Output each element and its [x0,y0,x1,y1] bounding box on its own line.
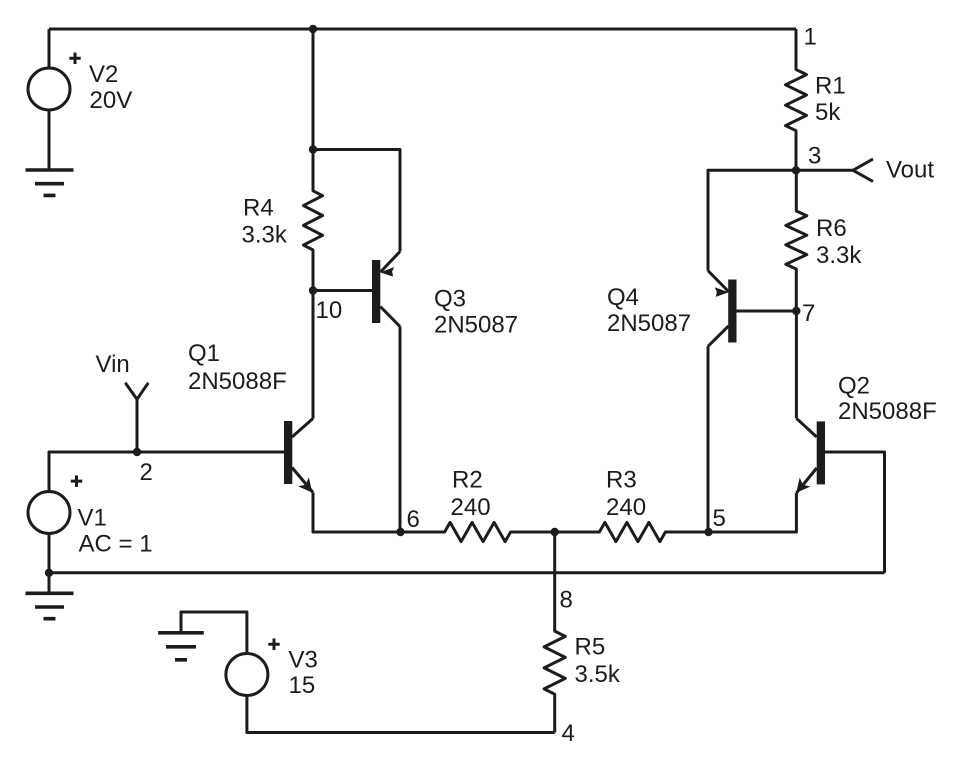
wire Q3 collector down to node 6 [399,327,402,533]
Q4 collector diagonal [708,326,729,346]
svg-text:2N5087: 2N5087 [434,312,518,339]
node 5 junction dot [704,528,712,536]
junction dot on top rail [309,25,317,33]
resistor R4 [303,150,322,291]
Q1 emitter diagonal [292,468,313,493]
wire node 2 to V1 positive lead [49,452,137,491]
Q1 emitter arrow (NPN, outward) [298,477,312,492]
transistor Q1 body bar [284,421,292,484]
svg-text:Vin: Vin [96,351,130,378]
junction dot V1 to ground rail [45,569,53,577]
Q4 emitter arrow (PNP, into bar) [715,287,729,297]
Q3 emitter diagonal [381,252,401,273]
wire node 5 to Q2 emitter [709,493,797,532]
transistor Q4 body bar [728,280,736,343]
source V3 [226,654,268,696]
source V2 [28,68,70,110]
Q2 collector diagonal [796,418,816,437]
svg-text:R5: R5 [575,634,606,661]
svg-text:Q3: Q3 [434,286,466,313]
svg-text:6: 6 [407,506,420,533]
wire node 4 to V3 negative lead [247,696,555,733]
wire V1 to ground symbol [48,573,51,594]
Q4 emitter diagonal [708,271,729,292]
svg-text:5: 5 [713,505,726,532]
svg-text:Q4: Q4 [607,284,639,311]
svg-text:3.5k: 3.5k [575,661,621,688]
svg-text:2N5088F: 2N5088F [838,398,937,425]
svg-text:R6: R6 [816,215,847,242]
wire middle vertical from top rail [312,29,315,150]
wire node 3 to Q4 emitter [708,170,796,270]
svg-text:240: 240 [451,494,491,521]
svg-text:1: 1 [804,24,817,51]
node 6 junction dot [396,528,404,536]
plus sign V3 [268,639,279,651]
svg-text:3.3k: 3.3k [816,242,862,269]
wire Vin stem [136,399,139,452]
resistor R2 [401,522,555,541]
wire Q1 base to node 2 [137,451,284,454]
node 10 junction dot [309,286,317,294]
svg-text:4: 4 [562,720,575,747]
svg-text:2N5088F: 2N5088F [188,368,287,395]
wire V3 positive lead to ground symbol [181,612,247,654]
wire top supply rail from V2 to node 1 [49,28,796,31]
node 2 junction dot [133,448,141,456]
svg-text:7: 7 [802,300,815,327]
Q2 emitter arrow (NPN, outward) [796,478,810,493]
node 3 junction dot [792,166,800,174]
svg-text:20V: 20V [90,87,133,114]
resistor R5 [544,532,565,733]
Vin antenna pickoff [125,383,148,400]
svg-text:2: 2 [140,459,153,486]
svg-text:V2: V2 [89,61,118,88]
transistor Q2 body bar [817,421,825,484]
resistor R6 [786,170,807,311]
junction dot at R4 top tee [309,145,317,153]
wire bottom ground rail to Q2 base loop [49,571,885,574]
Q1 collector diagonal [292,419,313,438]
transistor Q3 body bar [372,260,380,323]
resistor R1 [786,29,807,170]
wire to Q3 emitter [313,150,400,252]
svg-text:8: 8 [560,587,573,614]
wire Q4 base to node 7 [737,310,797,313]
wire Q2 collector up to node 7 [795,311,798,418]
svg-text:240: 240 [606,494,646,521]
svg-text:3.3k: 3.3k [242,222,288,249]
wire Q1 collector up to node 10 [312,291,315,419]
plus sign V1 [71,475,82,487]
wire Q4 collector down to node 5 [707,346,710,532]
ground (V1) [26,593,74,618]
svg-text:3: 3 [808,143,821,170]
Vout antenna pickoff [853,159,873,182]
svg-text:5k: 5k [815,99,841,126]
node 8 junction dot [551,528,559,536]
ground (V3) [158,633,204,660]
svg-text:R1: R1 [815,72,846,99]
Q3 emitter arrow (PNP, into bar) [380,267,394,277]
wire Q3 base to node 10 [313,289,372,292]
svg-text:Q2: Q2 [838,373,870,400]
svg-text:15: 15 [289,672,316,699]
svg-text:R2: R2 [452,467,483,494]
svg-text:R3: R3 [606,467,637,494]
wire V1 negative lead [48,534,51,573]
svg-text:R4: R4 [243,195,274,222]
wire V2 positive lead [48,29,51,68]
svg-text:Vout: Vout [886,157,934,184]
svg-text:Q1: Q1 [188,340,220,367]
svg-text:V1: V1 [78,505,107,532]
wire Q1 emitter down to node 6 [313,493,401,533]
wire Q2 base loop to ground rail [825,452,885,573]
ground (V2) [26,170,74,195]
svg-text:AC = 1: AC = 1 [79,531,153,558]
svg-text:10: 10 [316,297,343,324]
source V1 [28,492,70,534]
Q3 collector diagonal [380,307,400,327]
svg-text:V3: V3 [289,647,318,674]
Q2 emitter diagonal [796,468,816,493]
wire node 3 to Vout pickoff [796,169,853,172]
resistor R3 [555,522,709,541]
wire V2 negative lead [48,110,51,170]
node 7 junction dot [792,307,800,315]
plus sign V2 [69,53,80,65]
svg-text:2N5087: 2N5087 [607,310,691,337]
